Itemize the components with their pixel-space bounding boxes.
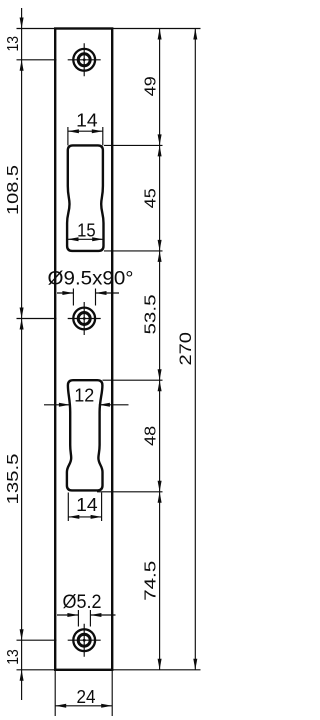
screw hole H2 crosshair	[68, 302, 101, 335]
svg-text:Ø9.5x90°: Ø9.5x90°	[48, 269, 134, 290]
dimension 14 bottom (deadbolt cutout lower width)	[68, 493, 101, 522]
right extension lines	[97, 29, 201, 670]
arrow shared 135.5/13, down at 640.2	[20, 629, 24, 640]
svg-text:53.5: 53.5	[143, 294, 160, 334]
svg-text:14: 14	[76, 109, 98, 130]
screw hole H3 crosshair	[68, 624, 101, 657]
overall dimension line 270	[194, 29, 196, 670]
svg-text:270: 270	[177, 332, 195, 366]
screw hole H2 countersink circle	[73, 308, 95, 330]
arrow pair at 380.2	[158, 369, 162, 380]
svg-text:Ø5.2: Ø5.2	[63, 592, 102, 613]
svg-text:12: 12	[74, 385, 94, 406]
arrow 270 bottom, down	[193, 659, 197, 670]
arrow pair at 491.8	[158, 481, 162, 492]
svg-text:108.5: 108.5	[5, 165, 22, 215]
svg-text:74.5: 74.5	[143, 561, 160, 601]
svg-text:13: 13	[5, 36, 22, 52]
screw hole H3 countersink circle	[73, 629, 95, 651]
arrow pair at 250.9	[158, 240, 162, 251]
arrow 108.5 bottom, down at 318.5	[20, 308, 24, 319]
arrow pair at 145.4	[158, 134, 162, 145]
dimension 15 (latch cutout lower width)	[68, 238, 104, 240]
deadbolt cutout (lower opening)	[67, 380, 103, 490]
svg-text:48: 48	[143, 426, 160, 446]
screw hole H3 center dot	[83, 639, 86, 642]
arrow 135.5 top, up at 318.5	[20, 319, 24, 330]
screw hole H1 bore circle	[78, 54, 90, 66]
svg-text:14: 14	[76, 494, 98, 515]
arrow dim13 top, down at 28.5	[20, 18, 24, 29]
right dimension chain line	[159, 29, 161, 670]
svg-text:15: 15	[77, 220, 96, 241]
arrow 270 top, up	[193, 29, 197, 40]
arrow 49 top, up at 28.5	[158, 29, 162, 40]
svg-text:135.5: 135.5	[5, 453, 22, 504]
arrow shared 13/108.5, up at 59.8	[20, 60, 24, 71]
arrow dim13 bottom, up at 669.8	[20, 670, 24, 681]
left extension lines	[17, 29, 57, 670]
dimension 12 (deadbolt cutout top width)	[44, 404, 129, 406]
screw hole H1 center dot	[83, 58, 86, 61]
dimension 24 (plate width)	[55, 671, 112, 716]
screw hole H3 bore circle	[78, 634, 90, 646]
arrow 74.5 bottom, down at 669.8	[158, 659, 162, 670]
latch cutout (upper opening)	[67, 145, 103, 251]
screw hole H1 countersink circle	[73, 49, 95, 71]
screw hole H1 crosshair	[68, 43, 101, 76]
svg-text:13: 13	[5, 649, 22, 665]
svg-text:45: 45	[143, 188, 160, 208]
screw hole H2 bore circle	[78, 313, 90, 325]
left dimension chain line	[21, 8, 23, 700]
plate outline	[55, 29, 112, 670]
screw hole H2 center dot	[83, 317, 86, 320]
svg-text:24: 24	[77, 686, 96, 707]
dimension 5.2 lines	[57, 610, 116, 627]
dimension 14 top (latch cutout width)	[68, 127, 103, 145]
svg-text:49: 49	[143, 76, 160, 96]
dimension 9.5 lines	[57, 289, 119, 306]
